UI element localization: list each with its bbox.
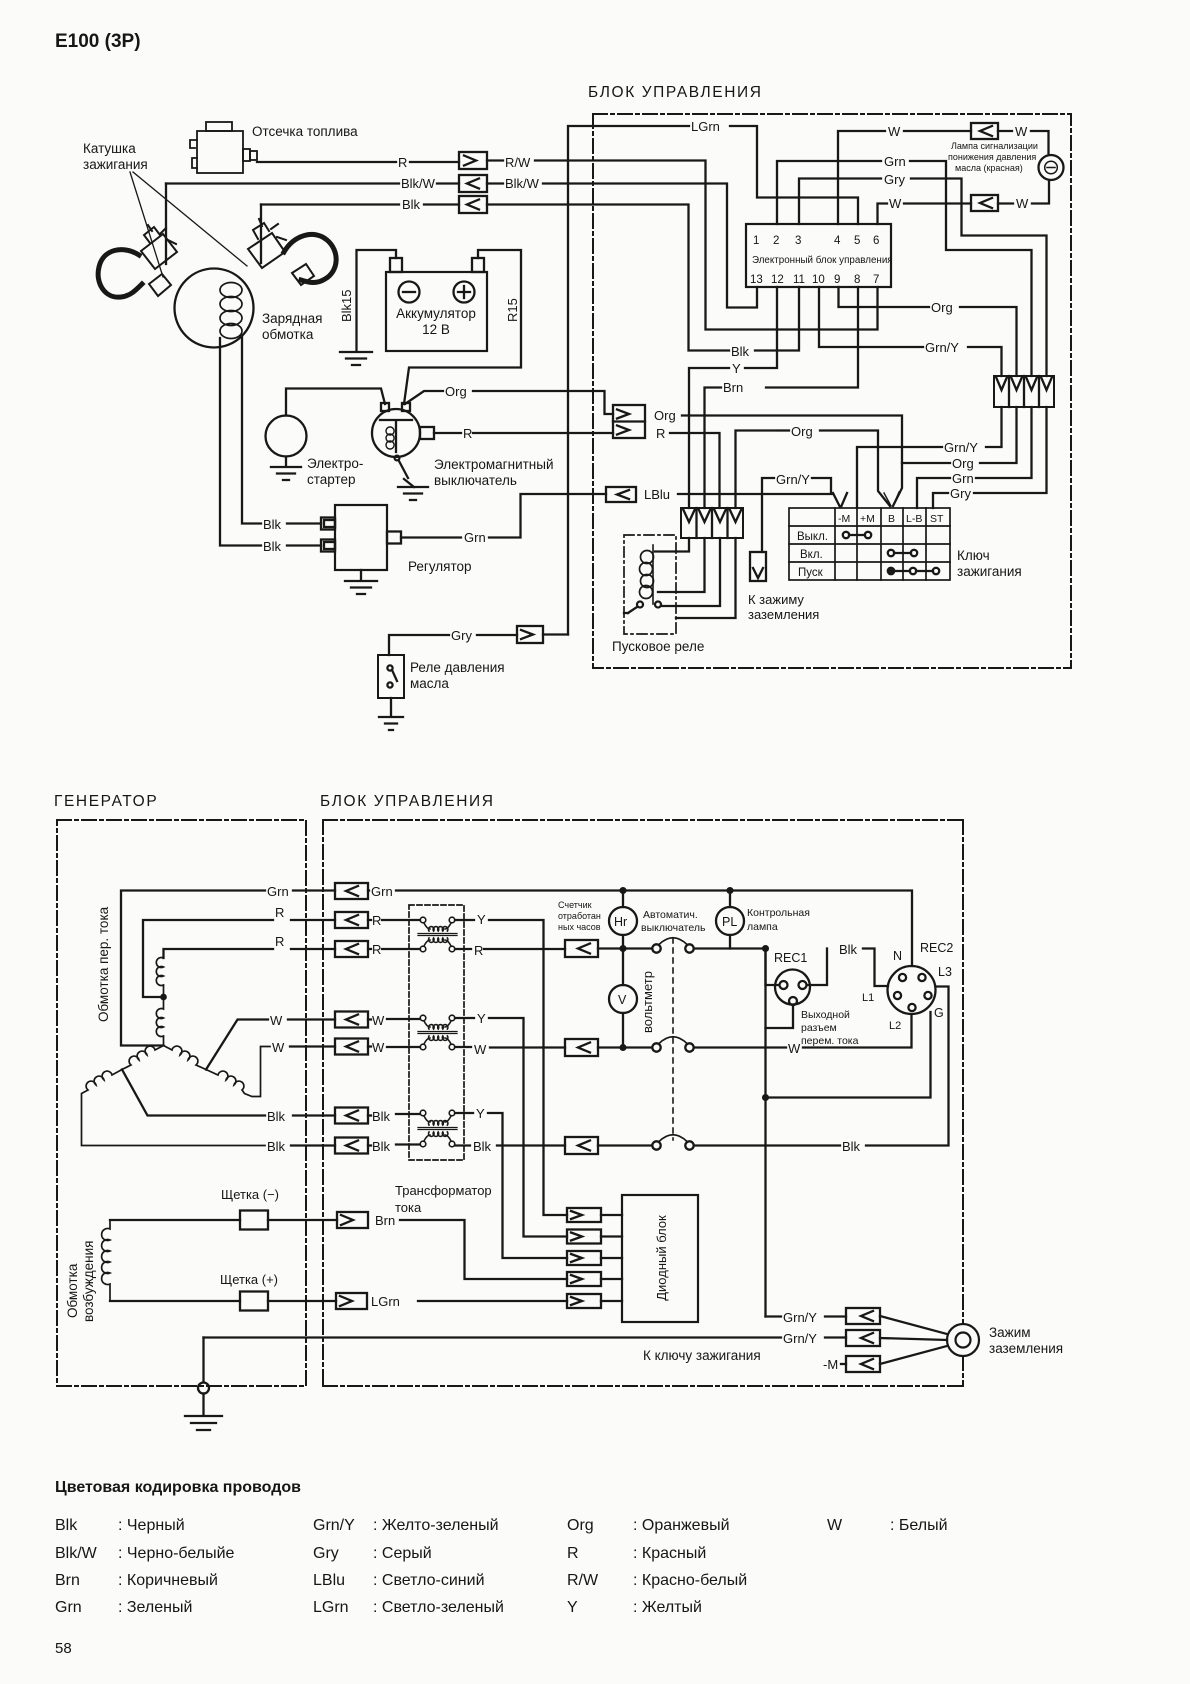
connector Gry — [517, 626, 543, 643]
svg-text:Gry: Gry — [950, 486, 971, 501]
switch contacts row Pusk — [888, 568, 894, 574]
svg-text:R: R — [398, 155, 407, 170]
wire Blk out T3 — [455, 1144, 470, 1146]
svg-text:Электронный блок управления: Электронный блок управления — [752, 255, 893, 266]
svg-text:Blk/W: Blk/W — [505, 176, 540, 191]
wire to ground terminal chain — [764, 949, 766, 1317]
svg-text:Org: Org — [654, 408, 676, 423]
svg-text:Отсечка топлива: Отсечка топлива — [252, 124, 358, 139]
wire R15 — [404, 250, 521, 404]
funnel arrow B column — [884, 492, 899, 506]
wire Org ECU pin9 — [839, 287, 930, 307]
wire Org to B column — [682, 416, 902, 507]
short wires into connectors — [288, 891, 335, 1146]
control lamp PL — [716, 907, 744, 935]
svg-text:2: 2 — [773, 235, 779, 247]
switch contacts row Vykl — [843, 532, 849, 538]
pointer lines from coil label — [130, 172, 247, 277]
wire Gry ECU pin3 — [799, 179, 881, 225]
svg-text:Blk: Blk — [839, 942, 858, 957]
svg-text:БЛОК УПРАВЛЕНИЯ: БЛОК УПРАВЛЕНИЯ — [588, 84, 763, 101]
svg-text:Пусковое реле: Пусковое реле — [612, 639, 704, 654]
svg-text:Пуск: Пуск — [798, 567, 824, 579]
svg-text:L-B: L-B — [906, 513, 922, 525]
svg-text:Gry: Gry — [313, 1545, 339, 1562]
svg-text:-M: -M — [823, 1357, 838, 1372]
wire W1 tap — [206, 1020, 268, 1070]
diode block — [622, 1195, 698, 1322]
connector Brn — [337, 1212, 368, 1228]
svg-text:: Зеленый: : Зеленый — [118, 1599, 192, 1616]
svg-text:Blk: Blk — [731, 344, 750, 359]
svg-text:LGrn: LGrn — [313, 1599, 349, 1616]
svg-text:LBlu: LBlu — [313, 1572, 345, 1589]
svg-text:W: W — [272, 1040, 285, 1055]
svg-text:лампа: лампа — [747, 921, 778, 933]
breaker contacts row W — [598, 1046, 652, 1048]
svg-text:Brn: Brn — [375, 1213, 395, 1228]
REC1 connector — [775, 970, 810, 1005]
breaker contacts row Blk — [598, 1144, 652, 1146]
svg-text:R: R — [656, 426, 665, 441]
generator connectors row (7) — [335, 883, 368, 1154]
svg-text:: Красно-белый: : Красно-белый — [633, 1572, 747, 1589]
wire Grn/Y ECU pin10 — [819, 287, 923, 347]
svg-text:Blk/W: Blk/W — [55, 1545, 98, 1562]
wire R2 to winding top — [164, 949, 274, 958]
oil switch ground — [379, 698, 403, 730]
wire Y3 — [455, 1112, 473, 1114]
svg-text:LGrn: LGrn — [691, 119, 720, 134]
wire Blk/W to ECU pin13 — [487, 184, 757, 308]
svg-text:Y: Y — [477, 912, 486, 927]
svg-text:W: W — [1015, 124, 1028, 139]
svg-text:Выкл.: Выкл. — [797, 531, 828, 543]
excitation winding coil — [102, 1220, 110, 1301]
wire R1 to winding tap — [143, 920, 273, 997]
svg-text:B: B — [888, 513, 895, 525]
svg-text:Выходной: Выходной — [801, 1009, 850, 1021]
svg-text:заземления: заземления — [748, 607, 819, 622]
svg-text:58: 58 — [55, 1640, 72, 1657]
svg-text:ных часов: ных часов — [558, 922, 601, 932]
svg-text:W: W — [372, 1040, 385, 1055]
generator earth wire — [204, 1336, 782, 1338]
funnel arrow -M — [833, 493, 847, 507]
svg-text:Blk: Blk — [842, 1139, 861, 1154]
svg-text:стартер: стартер — [307, 472, 356, 487]
svg-text:Grn/Y: Grn/Y — [776, 472, 810, 487]
relay wires — [655, 538, 736, 618]
svg-text:Blk: Blk — [263, 539, 282, 554]
winding right branch — [164, 1046, 271, 1097]
wire Blk to REC2 left — [763, 946, 768, 951]
svg-text:Org: Org — [445, 384, 467, 399]
connector block mid (4 sockets) — [681, 508, 743, 538]
svg-text:Org: Org — [931, 300, 953, 315]
wire W out T2 — [455, 1046, 471, 1048]
svg-text:ST: ST — [930, 513, 944, 525]
svg-text:Электромагнитный: Электромагнитный — [434, 457, 554, 472]
svg-text:Blk/W: Blk/W — [401, 176, 436, 191]
svg-text:БЛОК УПРАВЛЕНИЯ: БЛОК УПРАВЛЕНИЯ — [320, 793, 495, 810]
svg-text:отработан: отработан — [558, 911, 601, 921]
wire Y ECU pin12 — [745, 287, 777, 368]
wire Grn/Y to -M column — [812, 478, 831, 493]
svg-text:перем. тока: перем. тока — [801, 1035, 859, 1047]
svg-text:: Серый: : Серый — [373, 1545, 432, 1562]
svg-text:масла (красная): масла (красная) — [955, 163, 1023, 173]
svg-text:заземления: заземления — [989, 1341, 1063, 1356]
svg-text:Gry: Gry — [451, 628, 472, 643]
svg-text:вольтметр: вольтметр — [640, 971, 655, 1033]
connector to ground terminal — [750, 552, 766, 581]
svg-text:10: 10 — [812, 274, 825, 286]
wire Brn ECU pin8 — [766, 287, 858, 388]
spark plug left — [98, 225, 177, 297]
svg-text:Диодный блок: Диодный блок — [654, 1215, 669, 1301]
svg-text:Gry: Gry — [884, 172, 905, 187]
wire R/W to ECU pin7 — [487, 161, 878, 330]
wire Gry from oil switch — [389, 635, 449, 655]
svg-text:Вкл.: Вкл. — [800, 549, 823, 561]
svg-text:11: 11 — [793, 274, 805, 286]
svg-text:ГЕНЕРАТОР: ГЕНЕРАТОР — [54, 793, 158, 810]
wire Org from solenoid — [405, 391, 443, 404]
svg-text:R: R — [372, 942, 381, 957]
svg-text:W: W — [1016, 196, 1029, 211]
svg-text:понижения давления: понижения давления — [948, 152, 1036, 162]
connector R/W — [459, 152, 487, 169]
hour counter label — [558, 900, 601, 932]
lamp caption — [948, 141, 1038, 173]
svg-text:Blk: Blk — [267, 1109, 286, 1124]
svg-text:Blk: Blk — [55, 1517, 78, 1534]
svg-text:Org: Org — [567, 1517, 594, 1534]
svg-text:Лампа сигнализации: Лампа сигнализации — [951, 141, 1038, 151]
wire Blk15 — [357, 250, 397, 351]
ECU box — [746, 224, 891, 287]
svg-text:: Желто-зеленый: : Желто-зеленый — [373, 1517, 499, 1534]
switch contacts row Vkl — [888, 550, 894, 556]
svg-text:R: R — [275, 905, 284, 920]
svg-text:4: 4 — [834, 235, 841, 247]
generator dash-dot border — [57, 820, 306, 1386]
wire Y2 — [455, 1017, 474, 1019]
regulator ground — [345, 570, 377, 594]
connector LGrn — [336, 1293, 367, 1309]
wire W ECU pin4 to lamp — [838, 131, 885, 224]
svg-text:Grn/Y: Grn/Y — [313, 1517, 355, 1534]
svg-text:W: W — [888, 124, 901, 139]
svg-text:+M: +M — [860, 513, 875, 525]
svg-text:: Светло-синий: : Светло-синий — [373, 1572, 485, 1589]
svg-text:разъем: разъем — [801, 1022, 837, 1034]
svg-text:Grn/Y: Grn/Y — [944, 440, 978, 455]
svg-text:: Черный: : Черный — [118, 1517, 185, 1534]
svg-text:R: R — [474, 943, 483, 958]
svg-text:: Белый: : Белый — [890, 1517, 948, 1534]
svg-text:Автоматич.: Автоматич. — [643, 909, 698, 921]
electric starter — [266, 416, 307, 457]
starter relay — [624, 535, 676, 634]
svg-text:зажигания: зажигания — [957, 564, 1022, 579]
wire R out T1 — [455, 948, 471, 950]
svg-text:L1: L1 — [862, 992, 874, 1004]
svg-text:Blk: Blk — [372, 1109, 391, 1124]
connector W upper — [971, 123, 998, 139]
svg-text:Y: Y — [732, 361, 741, 376]
svg-text:7: 7 — [873, 274, 879, 286]
connector Org/R double — [613, 405, 645, 438]
svg-text:Трансформатор: Трансформатор — [395, 1183, 492, 1198]
battery — [386, 272, 487, 351]
svg-text:LBlu: LBlu — [644, 487, 670, 502]
svg-text:: Оранжевый: : Оранжевый — [633, 1517, 730, 1534]
connector LBlu — [606, 487, 636, 502]
charging winding rotor circle — [175, 269, 254, 348]
svg-text:: Светло-зеленый: : Светло-зеленый — [373, 1599, 504, 1616]
svg-text:зажигания: зажигания — [83, 157, 148, 172]
svg-text:Grn: Grn — [884, 154, 906, 169]
svg-text:Зарядная: Зарядная — [262, 311, 322, 326]
svg-text:Y: Y — [567, 1599, 578, 1616]
svg-text:выключатель: выключатель — [641, 922, 706, 934]
svg-text:Hr: Hr — [614, 915, 627, 929]
svg-text:Зажим: Зажим — [989, 1325, 1031, 1340]
wires to transformer primaries — [368, 920, 420, 949]
svg-text:5: 5 — [854, 235, 860, 247]
wire Blk to ECU pin11 — [487, 205, 729, 351]
svg-text:Реле давления: Реле давления — [410, 660, 505, 675]
winding left branch — [82, 1046, 266, 1146]
top Grn rail junctions — [621, 888, 626, 893]
svg-text:12: 12 — [771, 274, 784, 286]
charging winding coil — [220, 283, 242, 339]
winding coil upper — [156, 958, 163, 998]
svg-text:Blk: Blk — [402, 197, 421, 212]
svg-text:Blk: Blk — [263, 517, 282, 532]
svg-text:Обмотка пер. тока: Обмотка пер. тока — [96, 906, 111, 1022]
svg-text:Grn: Grn — [371, 884, 393, 899]
svg-text:Обмотка: Обмотка — [65, 1263, 80, 1318]
svg-text:R15: R15 — [505, 298, 520, 322]
svg-text:N: N — [893, 949, 902, 963]
wire LGrn ECU pin5 — [730, 126, 858, 224]
svg-text:E100 (3P): E100 (3P) — [55, 31, 141, 52]
svg-text:8: 8 — [854, 274, 860, 286]
connector block right (4 sockets) — [994, 376, 1054, 407]
wire Grn/Y upper to ground terminal — [766, 1315, 782, 1317]
wire Grn from regulator to LBlu — [401, 536, 461, 538]
svg-text:R: R — [463, 426, 472, 441]
transformer T3 — [418, 1110, 457, 1147]
svg-text:Регулятор: Регулятор — [408, 559, 472, 574]
svg-text:Blk: Blk — [372, 1139, 391, 1154]
svg-text:К зажиму: К зажиму — [748, 592, 804, 607]
svg-text:3: 3 — [795, 235, 801, 247]
svg-text:Щетка (+): Щетка (+) — [220, 1272, 278, 1287]
svg-text:W: W — [788, 1041, 801, 1056]
svg-text:Электро-: Электро- — [307, 456, 363, 471]
svg-text:Brn: Brn — [723, 380, 743, 395]
hour counter Hr — [609, 907, 637, 935]
wire Y1 — [455, 919, 474, 921]
fuel cut-off solenoid — [190, 122, 257, 173]
svg-text:выключатель: выключатель — [434, 473, 517, 488]
svg-text:V: V — [618, 993, 627, 1007]
electromagnetic switch — [372, 409, 420, 457]
svg-text:Y: Y — [476, 1106, 485, 1121]
svg-text:Grn/Y: Grn/Y — [783, 1310, 817, 1325]
svg-text:Grn: Grn — [952, 471, 974, 486]
wire Org second run — [778, 429, 789, 431]
svg-text:REC1: REC1 — [774, 951, 807, 965]
svg-text:REC2: REC2 — [920, 941, 953, 955]
svg-text:Grn: Grn — [464, 530, 486, 545]
svg-text:Org: Org — [952, 456, 974, 471]
wire R (fuel cutoff to connector) — [257, 161, 396, 163]
wires below right connector block — [986, 407, 1002, 447]
svg-text:: Красный: : Красный — [633, 1545, 706, 1562]
svg-text:W: W — [270, 1013, 283, 1028]
connector W lower — [971, 195, 998, 211]
svg-text:-M: -M — [838, 513, 850, 525]
winding coil lower — [156, 997, 163, 1046]
svg-text:Аккумулятор: Аккумулятор — [396, 306, 476, 321]
svg-text:Цветовая кодировка проводов: Цветовая кодировка проводов — [55, 1479, 301, 1496]
svg-text:масла: масла — [410, 676, 449, 691]
wire LGrn to diode block — [418, 1300, 567, 1302]
svg-text:Счетчик: Счетчик — [558, 900, 592, 910]
wire Blk/W — [166, 182, 399, 184]
svg-text:W: W — [889, 196, 902, 211]
wire W ECU pin6 to lamp — [878, 204, 888, 225]
wire Grn ECU pin2 — [777, 161, 881, 224]
regulator — [335, 505, 387, 570]
svg-text:Катушка: Катушка — [83, 141, 136, 156]
svg-text:12 В: 12 В — [422, 322, 450, 337]
svg-text:L3: L3 — [938, 965, 952, 979]
spark plug right — [248, 219, 336, 285]
oil pressure switch — [378, 655, 404, 698]
svg-text:Blk: Blk — [473, 1139, 492, 1154]
wire stubs to spark plugs — [166, 184, 261, 265]
svg-text:W: W — [827, 1517, 843, 1534]
ground below Blk15 — [340, 352, 372, 365]
svg-text:Y: Y — [477, 1011, 486, 1026]
output connectors (3) — [565, 940, 598, 1154]
svg-text:LGrn: LGrn — [371, 1294, 400, 1309]
svg-text:Grn/Y: Grn/Y — [783, 1331, 817, 1346]
ground terminal — [947, 1324, 979, 1356]
wires from charging winding to regulator — [242, 336, 261, 524]
transformer T1 — [418, 917, 457, 952]
svg-text:PL: PL — [722, 915, 737, 929]
svg-text:Grn: Grn — [55, 1599, 82, 1616]
svg-text:R: R — [372, 913, 381, 928]
svg-text:9: 9 — [834, 274, 840, 286]
svg-text:13: 13 — [750, 274, 763, 286]
wire Blk — [261, 203, 399, 205]
svg-text:Blk15: Blk15 — [339, 289, 354, 322]
svg-text:обмотка: обмотка — [262, 327, 314, 342]
svg-text:6: 6 — [873, 235, 879, 247]
wire Grn long run to REC2 — [368, 891, 912, 967]
svg-text:W: W — [474, 1042, 487, 1057]
svg-text:R: R — [567, 1545, 579, 1562]
svg-text:R: R — [275, 934, 284, 949]
wire Blk1 tap — [122, 1070, 265, 1116]
wire R to connector block — [670, 433, 720, 508]
svg-text:тока: тока — [395, 1200, 422, 1215]
REC2 connector — [888, 966, 936, 1014]
svg-text:Blk: Blk — [267, 1139, 286, 1154]
wire Brn to diode block — [400, 1220, 567, 1279]
svg-text:Щетка (−): Щетка (−) — [221, 1187, 279, 1202]
svg-text:: Коричневый: : Коричневый — [118, 1572, 218, 1589]
svg-text:Grn: Grn — [267, 884, 289, 899]
svg-text:Grn/Y: Grn/Y — [925, 340, 959, 355]
svg-text:Brn: Brn — [55, 1572, 80, 1589]
control block dash-dot border — [323, 820, 963, 1386]
breaker contacts row R — [598, 947, 652, 949]
ignition switch table — [789, 508, 950, 580]
svg-text:L2: L2 — [889, 1020, 901, 1032]
wire starter to solenoid — [286, 389, 385, 416]
current transformer dashed box — [409, 905, 464, 1160]
svg-text:R/W: R/W — [505, 155, 531, 170]
connector Blk — [459, 196, 487, 213]
svg-text:W: W — [372, 1013, 385, 1028]
svg-text:Ключ: Ключ — [957, 548, 990, 563]
svg-text:возбуждения: возбуждения — [81, 1241, 96, 1322]
voltmeter — [609, 985, 637, 1013]
connector Blk/W — [459, 175, 487, 192]
control block dash-dot border — [593, 114, 1071, 668]
svg-text:К ключу зажигания: К ключу зажигания — [643, 1348, 761, 1363]
svg-text:: Желтый: : Желтый — [633, 1599, 702, 1616]
oil pressure warning lamp — [1039, 155, 1064, 180]
svg-text:Org: Org — [791, 424, 813, 439]
svg-text:1: 1 — [753, 235, 759, 247]
breaker link dashed — [672, 938, 674, 1140]
wire LBlu to -M funnel — [678, 493, 833, 495]
diode connectors (5) — [567, 1208, 622, 1308]
wire Grn from star point — [121, 891, 265, 1046]
svg-text:Контрольная: Контрольная — [747, 907, 810, 919]
svg-text:G: G — [934, 1006, 944, 1020]
svg-text:: Черно-белыйе: : Черно-белыйе — [118, 1545, 235, 1562]
svg-text:R/W: R/W — [567, 1572, 599, 1589]
transformer T2 — [418, 1015, 457, 1050]
wire R from solenoid — [420, 427, 434, 439]
